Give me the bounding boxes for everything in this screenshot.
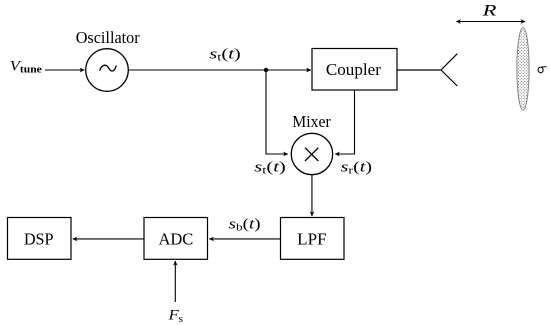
- svg-text:Fs: Fs: [168, 308, 184, 325]
- svg-text:Vtune: Vtune: [10, 58, 42, 75]
- svg-text:sb(t): sb(t): [229, 216, 261, 233]
- svg-text:DSP: DSP: [24, 230, 54, 249]
- svg-text:sr(t): sr(t): [341, 159, 373, 176]
- svg-text:R: R: [481, 3, 497, 20]
- svg-text:LPF: LPF: [297, 230, 326, 249]
- svg-text:ADC: ADC: [158, 230, 193, 249]
- svg-text:Mixer: Mixer: [292, 112, 331, 131]
- svg-text:Oscillator: Oscillator: [76, 28, 140, 47]
- svg-text:st(t): st(t): [209, 46, 241, 63]
- svg-text:Coupler: Coupler: [326, 60, 381, 79]
- svg-text:st(t): st(t): [254, 159, 286, 176]
